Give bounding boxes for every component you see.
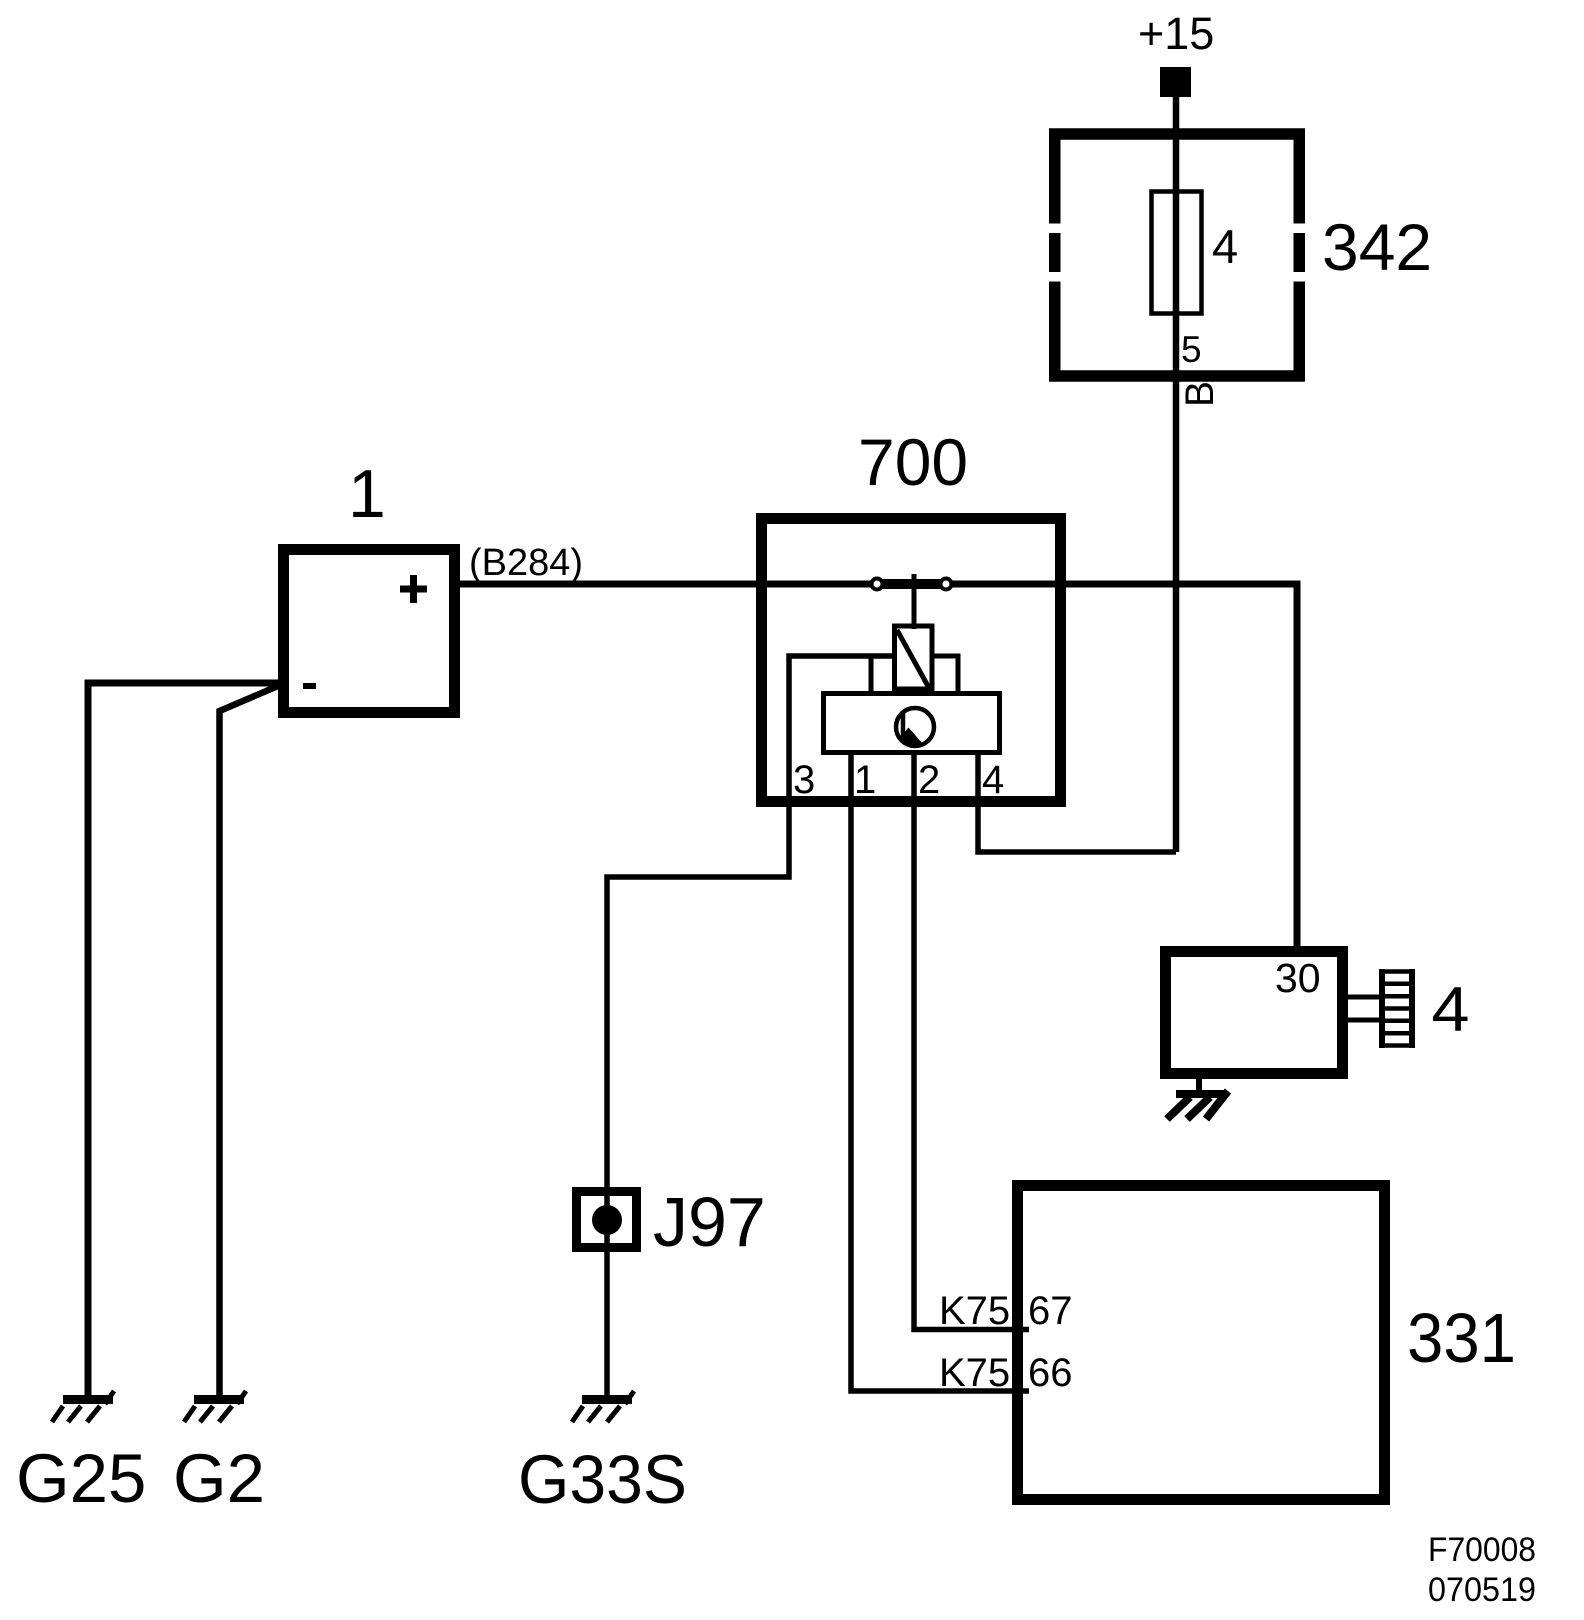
svg-text:F70008: F70008 xyxy=(1428,1531,1536,1569)
ground stub under box 30 xyxy=(1196,1079,1202,1091)
svg-text:4: 4 xyxy=(1432,975,1470,1045)
wire coil left terminal rail to pin 3 and J97 xyxy=(607,656,892,1395)
svg-text:4: 4 xyxy=(982,758,1004,802)
node K75 67 xyxy=(939,1289,1073,1333)
svg-text:66: 66 xyxy=(1028,1351,1073,1395)
wire coil left stub xyxy=(869,656,874,691)
svg-text:331: 331 xyxy=(1407,1299,1516,1377)
svg-text:342: 342 xyxy=(1322,210,1432,284)
connector 4 ladder xyxy=(1379,969,1415,1048)
svg-text:67: 67 xyxy=(1028,1289,1073,1333)
relay contact tick and coil link xyxy=(912,574,917,629)
relay contact circle left xyxy=(872,579,883,590)
relay pin 2 wire to K75 67 xyxy=(914,755,1029,1330)
svg-text:4: 4 xyxy=(1212,220,1238,273)
svg-text:070519: 070519 xyxy=(1428,1571,1536,1609)
fuse 4 xyxy=(1152,192,1202,314)
wire battery minus to G25 xyxy=(88,683,278,1395)
main wire battery to relay contact to 30-box xyxy=(460,584,1297,946)
pin labels 3 1 2 4 xyxy=(793,758,1004,802)
ECU box 331 xyxy=(1018,1186,1385,1500)
svg-text:G2: G2 xyxy=(173,1440,265,1517)
ground G2 xyxy=(173,1391,265,1517)
motor symbol xyxy=(888,708,934,752)
relay 700 outer box xyxy=(762,519,1061,802)
power terminal +15 xyxy=(1138,8,1214,97)
svg-text:B: B xyxy=(1178,381,1222,407)
svg-text:K75: K75 xyxy=(939,1351,1010,1395)
relay contact bar xyxy=(877,579,946,589)
relay contact circle right xyxy=(941,579,952,590)
connector J97 xyxy=(577,1183,766,1261)
svg-text:K75: K75 xyxy=(939,1289,1010,1333)
svg-text:700: 700 xyxy=(858,425,968,499)
svg-text:G33S: G33S xyxy=(518,1441,687,1518)
svg-text:30: 30 xyxy=(1275,955,1321,1001)
svg-text:G25: G25 xyxy=(16,1440,146,1517)
battery minus sign xyxy=(303,683,316,689)
ground G25 xyxy=(16,1391,146,1517)
motor box inside relay xyxy=(824,694,1000,753)
relay coil xyxy=(895,626,933,689)
relay pin 1 wire to K75 66 xyxy=(851,755,1029,1391)
device box 30 xyxy=(1166,952,1343,1074)
wire battery minus to G2 xyxy=(220,686,279,1395)
wires box30 to connector 4 xyxy=(1348,997,1379,1020)
svg-text:5: 5 xyxy=(1181,329,1202,370)
bold ground under box 30 xyxy=(1167,1090,1228,1119)
fuse holder box 342 (dashed) xyxy=(1049,129,1305,382)
svg-text:1: 1 xyxy=(348,456,386,532)
svg-text:J97: J97 xyxy=(653,1183,766,1261)
wire relay pin 4 to 342 drop xyxy=(978,755,1176,852)
node K75 66 xyxy=(939,1351,1073,1395)
svg-text:+15: +15 xyxy=(1138,8,1214,59)
wire from +15 terminal through fuse down to pin4 corner xyxy=(1173,95,1180,852)
svg-text:1: 1 xyxy=(854,758,876,802)
svg-text:2: 2 xyxy=(918,758,940,802)
svg-text:(B284): (B284) xyxy=(469,542,583,584)
drawing number xyxy=(1428,1531,1536,1609)
battery 1 box xyxy=(284,550,455,713)
wire coil right stub xyxy=(934,656,958,691)
svg-text:3: 3 xyxy=(793,758,815,802)
battery plus sign xyxy=(400,575,427,603)
ground G33S xyxy=(518,1391,687,1518)
